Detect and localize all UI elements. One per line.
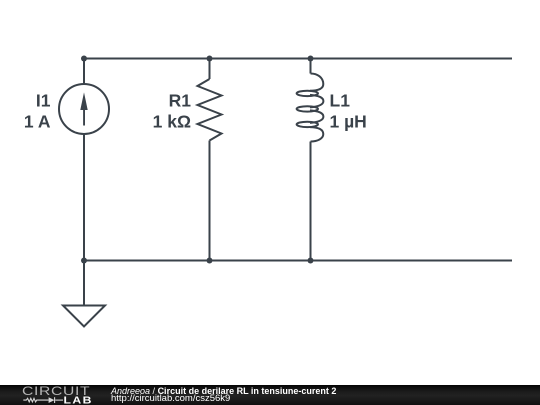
wire I1 bottom lead [83, 134, 85, 261]
inductor L1 [310, 74, 323, 142]
ground [63, 306, 105, 327]
wire R1 bottom lead [209, 141, 211, 261]
resistor R1 [198, 79, 222, 141]
svg-text:I1: I1 [36, 91, 51, 111]
svg-text:L1: L1 [330, 91, 351, 111]
CircuitLab logo [0, 384, 100, 405]
current source I1 [59, 84, 109, 134]
svg-text:1 kΩ: 1 kΩ [153, 112, 191, 132]
wire bottom rail [84, 260, 512, 262]
wire L1 top lead [310, 59, 312, 74]
footer bar [0, 385, 540, 405]
wire ground lead [83, 261, 85, 306]
wire I1 top lead [83, 59, 85, 85]
node F bottom-L1 [308, 258, 314, 264]
node A top-I1 [81, 56, 87, 62]
wire R1 top lead [209, 59, 211, 80]
wire L1 bottom lead [310, 142, 312, 261]
node E bottom-R1 [207, 258, 213, 264]
node D bottom-I1 [81, 258, 87, 264]
I1 arrow [80, 92, 87, 110]
svg-text:LAB: LAB [64, 395, 93, 405]
node C top-L1 [308, 56, 314, 62]
svg-text:1 A: 1 A [24, 112, 51, 132]
wire top rail [84, 58, 512, 60]
node B top-R1 [207, 56, 213, 62]
svg-text:1 µH: 1 µH [330, 112, 367, 132]
svg-text:R1: R1 [169, 91, 192, 111]
